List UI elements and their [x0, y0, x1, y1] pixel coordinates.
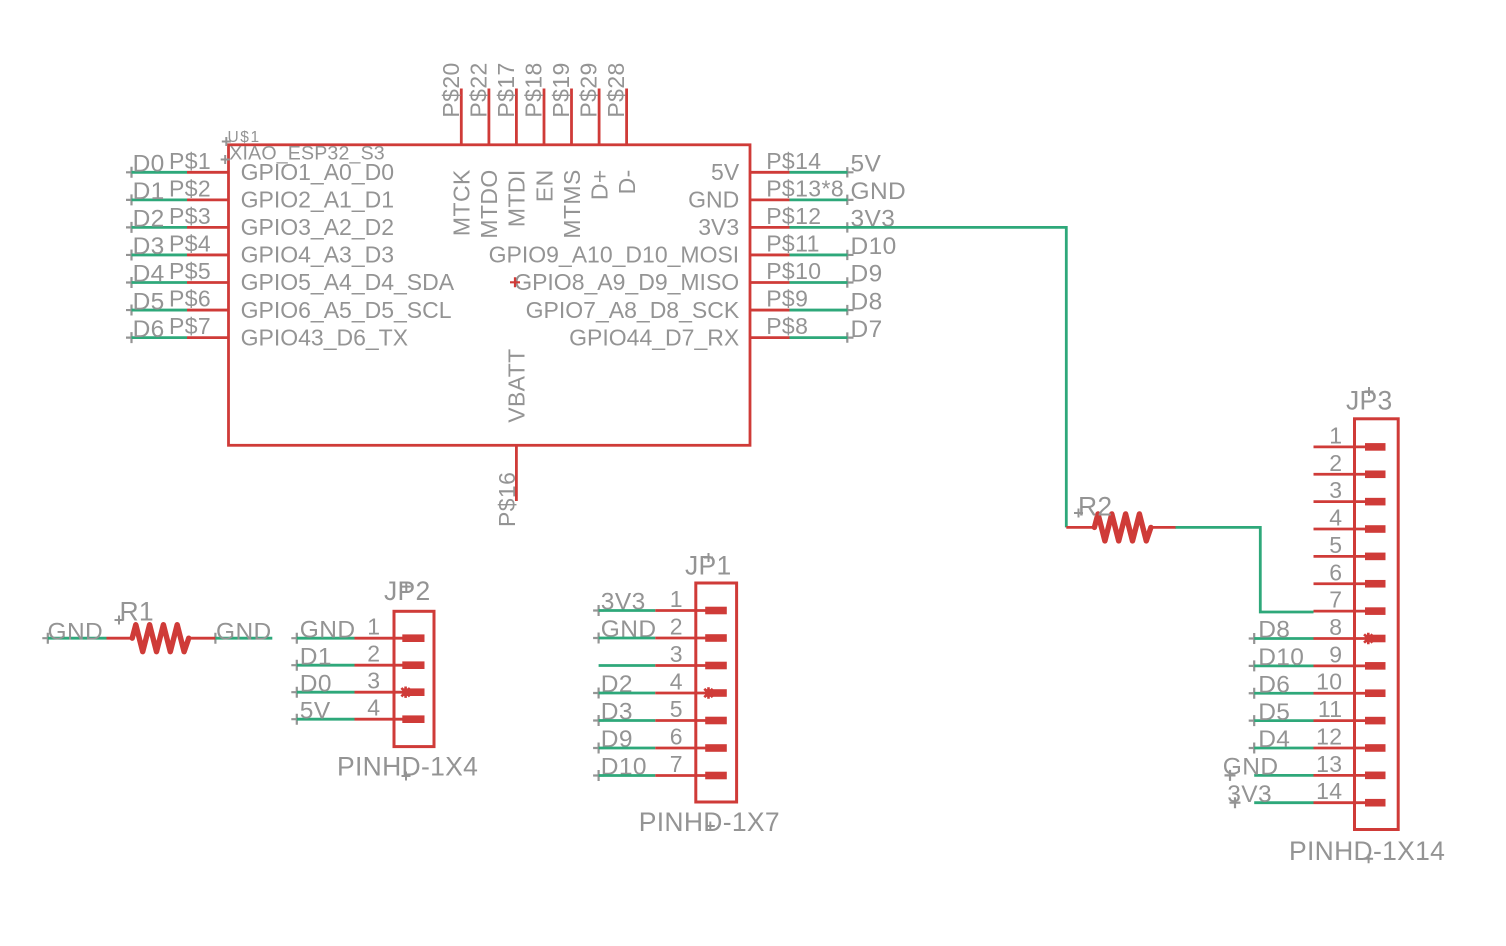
svg-text:1: 1	[1329, 422, 1342, 448]
svg-text:GND: GND	[300, 616, 356, 643]
svg-text:GPIO3_A2_D2: GPIO3_A2_D2	[241, 214, 394, 240]
svg-text:3V3: 3V3	[1227, 781, 1272, 808]
svg-text:5: 5	[1329, 532, 1342, 558]
svg-text:MTDI: MTDI	[504, 169, 530, 227]
svg-text:2: 2	[670, 614, 683, 640]
svg-text:D6: D6	[1258, 671, 1290, 698]
svg-text:D1: D1	[300, 643, 332, 670]
svg-text:D8: D8	[1258, 617, 1290, 644]
svg-text:5V: 5V	[300, 697, 331, 724]
svg-text:4: 4	[1329, 505, 1342, 531]
svg-text:P$12: P$12	[766, 203, 821, 229]
svg-text:11: 11	[1318, 696, 1343, 722]
svg-text:MTDO: MTDO	[476, 169, 502, 238]
svg-text:6: 6	[670, 724, 683, 750]
svg-text:10: 10	[1316, 669, 1342, 695]
svg-text:P$18: P$18	[521, 62, 547, 117]
svg-text:GND: GND	[48, 619, 104, 646]
svg-text:MTMS: MTMS	[559, 169, 585, 238]
svg-text:D+: D+	[586, 169, 612, 200]
svg-text:P$22: P$22	[465, 62, 491, 117]
svg-text:GPIO6_A5_D5_SCL: GPIO6_A5_D5_SCL	[241, 297, 452, 323]
svg-text:GPIO7_A8_D8_SCK: GPIO7_A8_D8_SCK	[526, 297, 740, 323]
svg-text:D0: D0	[300, 670, 332, 697]
svg-text:P$20: P$20	[438, 62, 464, 117]
svg-text:2: 2	[1329, 450, 1342, 476]
svg-text:12: 12	[1316, 723, 1342, 749]
svg-text:GPIO43_D6_TX: GPIO43_D6_TX	[241, 324, 408, 350]
svg-text:P$19: P$19	[548, 62, 574, 117]
svg-text:P$6: P$6	[169, 286, 211, 312]
svg-text:R2: R2	[1078, 492, 1112, 522]
svg-text:GPIO9_A10_D10_MOSI: GPIO9_A10_D10_MOSI	[489, 242, 740, 268]
svg-text:D5: D5	[1258, 699, 1290, 726]
svg-text:GND: GND	[688, 187, 739, 213]
svg-text:GPIO4_A3_D3: GPIO4_A3_D3	[241, 242, 394, 268]
svg-text:D10: D10	[851, 233, 897, 260]
svg-text:D10: D10	[1258, 644, 1304, 671]
svg-text:13: 13	[1316, 751, 1342, 777]
svg-text:MTCK: MTCK	[449, 169, 475, 236]
svg-text:D6: D6	[133, 316, 165, 343]
svg-text:9: 9	[1329, 641, 1342, 667]
svg-text:7: 7	[670, 751, 683, 777]
svg-text:P$14: P$14	[766, 148, 821, 174]
svg-text:4: 4	[367, 695, 380, 721]
svg-text:5V: 5V	[851, 151, 882, 178]
svg-text:P$17: P$17	[493, 62, 519, 117]
svg-text:D4: D4	[1258, 726, 1290, 753]
svg-text:P$16: P$16	[494, 472, 520, 527]
svg-text:14: 14	[1316, 778, 1342, 804]
svg-text:P$29: P$29	[576, 62, 602, 117]
svg-text:1: 1	[670, 586, 683, 612]
svg-text:4: 4	[670, 669, 683, 695]
svg-text:GND: GND	[1223, 754, 1279, 781]
svg-text:GND: GND	[851, 178, 907, 205]
svg-text:GPIO8_A9_D9_MISO: GPIO8_A9_D9_MISO	[514, 269, 739, 295]
svg-text:8: 8	[1329, 614, 1342, 640]
svg-text:D8: D8	[851, 288, 883, 315]
svg-text:D0: D0	[133, 151, 165, 178]
svg-text:3: 3	[670, 641, 683, 667]
svg-text:P$13*8: P$13*8	[766, 175, 844, 201]
svg-text:P$9: P$9	[766, 286, 808, 312]
svg-text:EN: EN	[531, 169, 557, 202]
svg-text:5V: 5V	[711, 159, 740, 185]
svg-text:D4: D4	[133, 261, 165, 288]
svg-text:GPIO2_A1_D1: GPIO2_A1_D1	[241, 187, 394, 213]
svg-text:PINHD-1X14: PINHD-1X14	[1289, 836, 1445, 866]
svg-text:7: 7	[1329, 587, 1342, 613]
svg-text:P$8: P$8	[766, 313, 808, 339]
svg-text:1: 1	[367, 614, 380, 640]
svg-text:D5: D5	[133, 288, 165, 315]
svg-text:P$2: P$2	[169, 175, 211, 201]
svg-text:P$3: P$3	[169, 203, 211, 229]
svg-text:5: 5	[670, 696, 683, 722]
svg-text:3: 3	[367, 668, 380, 694]
svg-text:D9: D9	[851, 261, 883, 288]
svg-text:6: 6	[1329, 559, 1342, 585]
svg-text:R1: R1	[120, 596, 154, 626]
svg-text:D1: D1	[133, 178, 165, 205]
svg-text:P$28: P$28	[603, 62, 629, 117]
svg-text:P$10: P$10	[766, 258, 821, 284]
svg-text:D2: D2	[133, 206, 165, 233]
svg-text:D-: D-	[614, 169, 640, 194]
svg-text:XIAO_ESP32_S3: XIAO_ESP32_S3	[229, 143, 385, 165]
svg-text:P$11: P$11	[766, 230, 820, 256]
svg-text:PINHD-1X4: PINHD-1X4	[337, 752, 478, 782]
svg-text:D3: D3	[133, 233, 165, 260]
svg-text:D7: D7	[851, 316, 883, 343]
svg-text:3V3: 3V3	[698, 214, 739, 240]
svg-text:P$7: P$7	[169, 313, 211, 339]
svg-text:P$1: P$1	[169, 148, 211, 174]
svg-text:VBATT: VBATT	[504, 348, 530, 422]
svg-text:GPIO44_D7_RX: GPIO44_D7_RX	[569, 324, 739, 350]
svg-text:P$4: P$4	[169, 230, 211, 256]
svg-text:2: 2	[367, 641, 380, 667]
svg-text:3: 3	[1329, 477, 1342, 503]
svg-text:GPIO5_A4_D4_SDA: GPIO5_A4_D4_SDA	[241, 269, 455, 295]
svg-text:GND: GND	[216, 619, 272, 646]
svg-text:P$5: P$5	[169, 258, 211, 284]
